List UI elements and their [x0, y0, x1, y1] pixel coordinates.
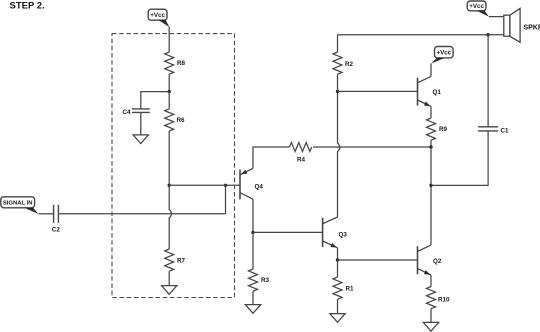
ground (under R1) [330, 314, 345, 323]
svg-text:R3: R3 [261, 277, 270, 284]
+Vcc flag (Q1 collector) [431, 47, 453, 64]
wire: node to Q2 base [338, 259, 418, 261]
resistor R1 [333, 277, 354, 299]
wire: C4 to ground [140, 112, 142, 134]
capacitor C1 [478, 127, 509, 135]
capacitor C2 [52, 205, 61, 234]
svg-text:+Vcc: +Vcc [469, 3, 484, 10]
wire: node down to R1 [337, 260, 339, 277]
wire: node to Q3 base [253, 231, 323, 233]
ground (under R7) [162, 286, 177, 295]
wire: node to speaker bottom terminal [488, 34, 504, 36]
node: C1 branch junction [429, 184, 432, 187]
svg-text:Q1: Q1 [433, 89, 442, 96]
wire: C1 bottom branch [431, 131, 488, 185]
svg-text:SPKR: SPKR [524, 25, 540, 32]
svg-text:R10: R10 [438, 297, 450, 304]
wire: C2 to riser (crosses under main vertical) [59, 213, 226, 215]
wire: node to Q1 base [338, 90, 418, 92]
node: R8/R6/C4 junction [168, 90, 171, 93]
svg-text:R4: R4 [297, 156, 306, 163]
wire: riser up to base wire [225, 185, 227, 214]
node: signal joins base wire [224, 184, 227, 187]
ground (under C4) [133, 135, 148, 144]
capacitor C4 [122, 109, 149, 116]
resistor R10 [427, 287, 451, 309]
wire: node down to R3 [252, 232, 254, 269]
svg-text:C2: C2 [52, 227, 61, 234]
SIGNAL IN flag [1, 197, 39, 214]
wire: R10 to ground [430, 309, 432, 323]
wire: node down to C1 [487, 35, 489, 127]
node: R6/R7/Q4-base junction [168, 184, 171, 187]
wire: signal tail to C2 [39, 213, 54, 215]
+Vcc flag (top left, feeds R8) [148, 9, 169, 27]
wire: junction to C4 [141, 92, 169, 109]
wire: Q3 collector up to R2 node with hop over R4 wire [338, 91, 340, 217]
svg-text:R7: R7 [177, 258, 186, 265]
+Vcc flag (top right, speaker supply) [467, 1, 489, 17]
node: Q3 emitter / R1 / Q2 base [336, 258, 339, 261]
svg-text:Q2: Q2 [433, 258, 442, 265]
wire: junction to R6 [168, 92, 170, 109]
svg-text:R6: R6 [177, 117, 186, 124]
node: R2 / Q1 base / Q3 collector [336, 90, 339, 93]
wire: junction down to R7 with hop over signal wire [169, 185, 171, 249]
wire: R2 to node [337, 74, 339, 91]
svg-text:STEP 2.: STEP 2. [10, 1, 45, 12]
svg-text:Q4: Q4 [255, 183, 264, 190]
node: R9 / R4 / Q2 collector [429, 145, 432, 148]
wire: R9 to node [430, 140, 432, 147]
resistor R8 [165, 52, 186, 74]
wire: Q4 collector down to node [252, 199, 254, 232]
svg-text:R2: R2 [345, 61, 354, 68]
wire: base wire junction to Q4 base [169, 184, 240, 186]
wire: R7 to ground [168, 271, 170, 285]
svg-text:+Vcc: +Vcc [436, 50, 451, 57]
svg-text:R1: R1 [346, 285, 355, 292]
resistor R3 [249, 269, 270, 291]
speaker SPKR [504, 8, 540, 42]
wire: Q1 emitter to R9 [430, 106, 432, 118]
top rail wire: R2 top to speaker node [338, 34, 489, 36]
svg-text:+Vcc: +Vcc [150, 12, 165, 19]
wire: Q1 collector to +Vcc [430, 63, 432, 76]
svg-text:R8: R8 [177, 60, 186, 67]
node: speaker bottom terminal / rail / C1 [486, 33, 489, 36]
svg-text:R9: R9 [439, 126, 448, 133]
wire: R4 to R9 node [313, 146, 431, 148]
wire: R3 to ground [252, 291, 254, 304]
svg-text:C4: C4 [122, 109, 131, 116]
resistor R7 [165, 249, 186, 271]
wire: +Vcc to speaker top terminal [489, 16, 504, 18]
wire: rail corner to R2 [337, 35, 339, 52]
transistor Q3 (NPN) [323, 217, 348, 250]
wire: +Vcc to R8 [168, 27, 170, 52]
wire: R6 down to base junction [168, 131, 170, 185]
transistor Q2 (NPN) [418, 245, 442, 277]
node: Q4 collector / R3 / Q3 base [251, 231, 254, 234]
ground (under R3) [245, 305, 260, 314]
svg-text:SIGNAL IN: SIGNAL IN [3, 201, 33, 207]
wire: node down to Q2 collector [430, 147, 432, 245]
wire: R8 to junction [168, 74, 170, 91]
resistor R9 [427, 118, 448, 140]
resistor R2 [333, 52, 354, 74]
wire: Q3 emitter down to junction [337, 248, 339, 260]
svg-text:C1: C1 [501, 127, 510, 134]
resistor R4 [290, 143, 312, 164]
wire: Q4 emitter up and right to R4 [253, 147, 290, 168]
transistor Q4 (PNP) [240, 168, 263, 199]
svg-text:Q3: Q3 [339, 231, 348, 238]
dashed enclosure box [112, 34, 235, 298]
transistor Q1 (NPN) [418, 76, 442, 108]
ground (under R10) [423, 322, 438, 331]
resistor R6 [165, 109, 185, 131]
wire: R1 to ground [337, 299, 339, 313]
wire: Q2 emitter to R10 [430, 275, 432, 287]
